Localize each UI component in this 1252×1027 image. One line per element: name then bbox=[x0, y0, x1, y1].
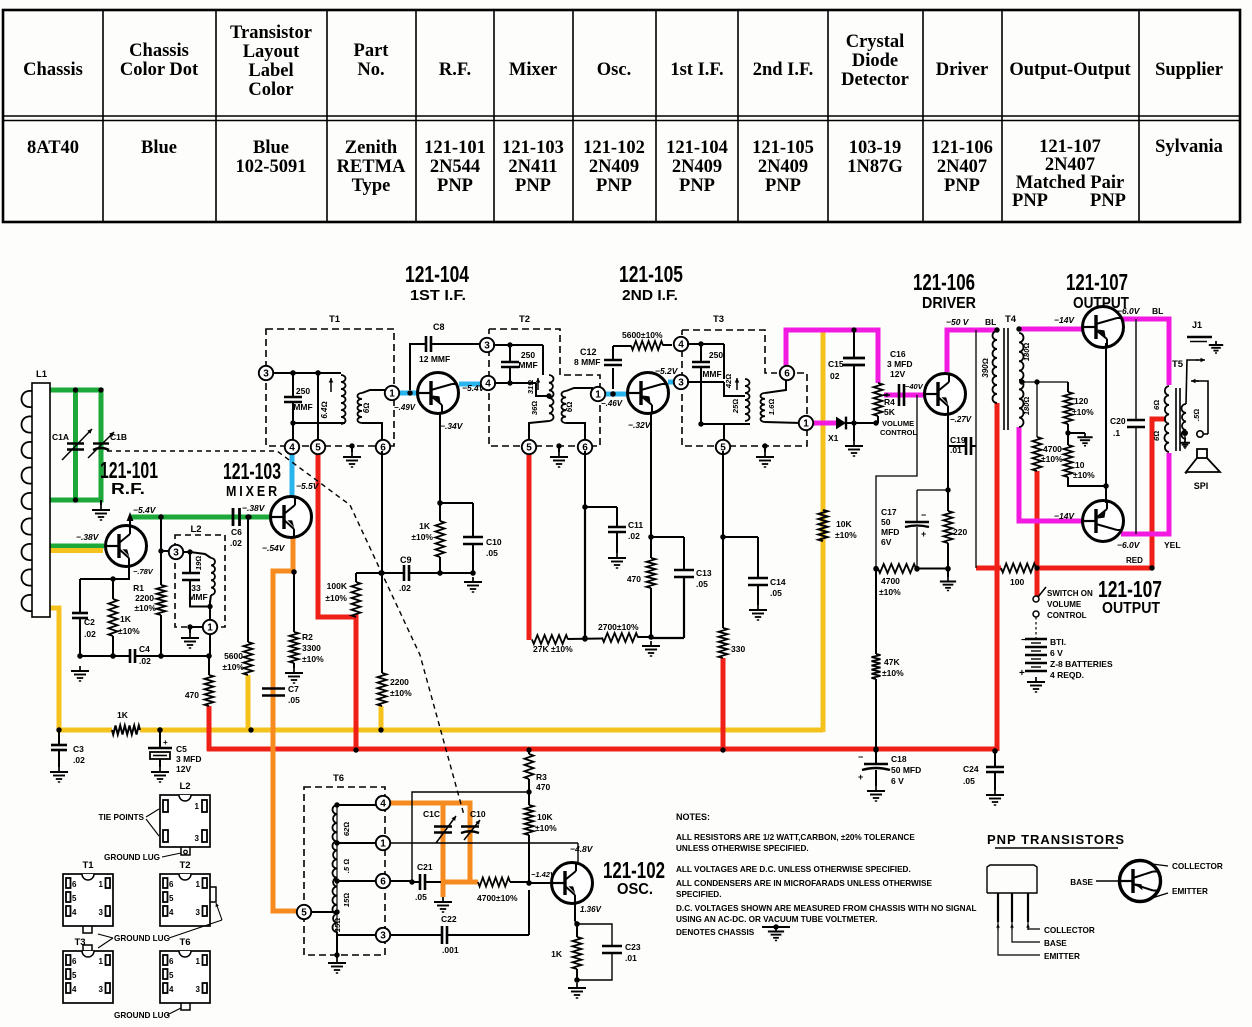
svg-text:R.F.: R.F. bbox=[111, 481, 145, 498]
svg-text:+: + bbox=[1019, 668, 1025, 679]
svg-text:C1C: C1C bbox=[423, 809, 440, 819]
wire red supply bus bbox=[207, 747, 997, 752]
resistor 4700 output bias bbox=[1036, 382, 1038, 437]
svg-text:C13: C13 bbox=[696, 568, 712, 578]
svg-text:121-107: 121-107 bbox=[1098, 576, 1162, 602]
osc emitter bbox=[574, 903, 576, 921]
svg-text:Transistor: Transistor bbox=[230, 23, 312, 43]
svg-text:121-105: 121-105 bbox=[619, 261, 683, 287]
T3 pin 4 bbox=[674, 337, 688, 351]
svg-text:Label: Label bbox=[248, 61, 293, 81]
svg-text:PNP: PNP bbox=[944, 176, 980, 196]
svg-text:250: 250 bbox=[296, 386, 310, 396]
svg-text:±10%: ±10% bbox=[535, 823, 557, 833]
T2 secondary winding bbox=[562, 391, 567, 423]
transistor 121-107 output top bbox=[1083, 307, 1124, 348]
svg-text:MMF: MMF bbox=[293, 402, 312, 412]
wire orange bottom link bbox=[443, 880, 478, 885]
parts table frame bbox=[3, 10, 1240, 222]
svg-text:Type: Type bbox=[352, 176, 391, 196]
svg-text:.02: .02 bbox=[84, 629, 96, 639]
svg-text:Driver: Driver bbox=[936, 60, 988, 80]
svg-text:T3: T3 bbox=[713, 314, 724, 325]
svg-text:2N407: 2N407 bbox=[1045, 155, 1095, 175]
svg-text:MIXER: MIXER bbox=[226, 483, 280, 500]
svg-text:−.38V: −.38V bbox=[242, 503, 266, 513]
svg-text:USING AN AC-DC. OR VACUUM TUBE: USING AN AC-DC. OR VACUUM TUBE VOLTMETER… bbox=[676, 915, 878, 924]
T6 pin 6 bbox=[337, 880, 376, 882]
svg-text:250: 250 bbox=[709, 350, 723, 360]
svg-text:180Ω: 180Ω bbox=[1022, 343, 1031, 362]
svg-text:5600: 5600 bbox=[224, 651, 243, 661]
svg-text:4 REQD.: 4 REQD. bbox=[1050, 670, 1084, 680]
svg-text:C11: C11 bbox=[628, 520, 643, 530]
svg-text:02: 02 bbox=[830, 371, 840, 381]
svg-text:5600±10%: 5600±10% bbox=[622, 330, 663, 340]
svg-text:C7: C7 bbox=[288, 684, 299, 694]
svg-text:J1: J1 bbox=[1192, 320, 1202, 330]
svg-text:R3: R3 bbox=[536, 772, 547, 782]
svg-text:10K: 10K bbox=[836, 519, 852, 529]
svg-text:1K: 1K bbox=[551, 949, 563, 959]
T1 secondary winding 6ohm bbox=[358, 393, 363, 423]
svg-text:−.46V: −.46V bbox=[601, 399, 623, 408]
svg-text:4: 4 bbox=[169, 908, 174, 917]
T2 pin 3 bbox=[480, 338, 494, 352]
resistor 5600 mixer bias bbox=[245, 514, 250, 519]
capacitor C20 .1 bbox=[1135, 319, 1137, 420]
ground C2 bbox=[79, 666, 81, 671]
switch on volume control bbox=[1033, 596, 1039, 602]
svg-text:.02: .02 bbox=[139, 656, 151, 666]
package lead labels bbox=[1028, 922, 1040, 929]
svg-text:2nd I.F.: 2nd I.F. bbox=[753, 60, 814, 80]
wire R3 junction to C21 bbox=[412, 792, 529, 882]
svg-text:1: 1 bbox=[803, 418, 809, 429]
svg-text:±10%: ±10% bbox=[118, 626, 140, 636]
transistor symbol legend bbox=[1120, 861, 1161, 902]
svg-text:T2: T2 bbox=[519, 314, 530, 325]
svg-text:4: 4 bbox=[169, 985, 174, 994]
svg-text:C4: C4 bbox=[139, 644, 150, 654]
svg-text:X1: X1 bbox=[828, 433, 839, 443]
transformer T4 bbox=[993, 331, 998, 403]
svg-text:C16: C16 bbox=[890, 349, 906, 359]
T5 secondary to jack bbox=[1186, 360, 1198, 404]
svg-text:C5: C5 bbox=[176, 744, 187, 754]
wire output emitters link bbox=[1105, 343, 1107, 503]
svg-text:25Ω: 25Ω bbox=[731, 399, 740, 414]
svg-text:470: 470 bbox=[627, 574, 641, 584]
svg-text:±10%: ±10% bbox=[302, 654, 324, 664]
svg-text:.02: .02 bbox=[628, 531, 640, 541]
ground C18 bbox=[875, 786, 877, 791]
svg-text:3: 3 bbox=[196, 985, 201, 994]
svg-text:47K: 47K bbox=[884, 657, 900, 667]
svg-text:D.C. VOLTAGES SHOWN ARE MEASUR: D.C. VOLTAGES SHOWN ARE MEASURED FROM CH… bbox=[676, 904, 977, 913]
svg-text:C18: C18 bbox=[891, 754, 907, 764]
svg-text:BL: BL bbox=[985, 317, 996, 327]
resistor 10K volume bbox=[819, 510, 828, 541]
resistor 330 bbox=[722, 537, 724, 628]
svg-text:+: + bbox=[858, 772, 863, 782]
svg-text:PNP: PNP bbox=[765, 176, 801, 196]
tuning capacitor C1A bbox=[67, 442, 84, 444]
svg-text:4: 4 bbox=[678, 339, 684, 350]
svg-text:−5.5V: −5.5V bbox=[296, 481, 320, 491]
ground R2 bbox=[293, 668, 295, 673]
T4 secondary bias taps bbox=[1019, 381, 1068, 383]
ground C14 bbox=[757, 605, 759, 610]
capacitor C12 8MMF bbox=[612, 368, 614, 389]
svg-text:4: 4 bbox=[485, 378, 491, 389]
wire magenta driver collector to T4 bbox=[947, 330, 997, 372]
svg-text:.05: .05 bbox=[770, 588, 782, 598]
resistor 1K RF emitter bbox=[110, 576, 115, 581]
svg-text:Detector: Detector bbox=[841, 70, 909, 90]
svg-text:.02: .02 bbox=[399, 583, 411, 593]
svg-text:1K: 1K bbox=[117, 710, 129, 720]
svg-text:31Ω: 31Ω bbox=[526, 380, 535, 394]
T2 pin 6 bbox=[578, 440, 592, 454]
svg-text:Mixer: Mixer bbox=[509, 60, 557, 80]
svg-text:Part: Part bbox=[354, 41, 390, 61]
T1 layout ground lug bbox=[83, 926, 92, 933]
svg-text:BL: BL bbox=[1152, 306, 1163, 316]
svg-text:C19: C19 bbox=[950, 435, 966, 445]
svg-text:−.34V: −.34V bbox=[440, 421, 464, 431]
svg-text:5: 5 bbox=[72, 894, 77, 903]
T3 primary wiring bbox=[687, 343, 724, 345]
svg-text:.01: .01 bbox=[625, 953, 637, 963]
junction dots bbox=[248, 727, 253, 732]
T3 primary winding bbox=[723, 344, 725, 379]
T3 pin 6 bbox=[780, 366, 794, 380]
resistor 10K osc bbox=[528, 792, 530, 805]
resistor 4700 osc bbox=[478, 878, 510, 887]
svg-text:C6: C6 bbox=[231, 527, 242, 537]
wire C19 to 100 ohm row bbox=[975, 330, 977, 568]
svg-text:1K: 1K bbox=[120, 614, 132, 624]
wire red 100 ohm row bbox=[976, 566, 1001, 571]
svg-text:PNP: PNP bbox=[1012, 191, 1048, 211]
svg-text:MFD: MFD bbox=[881, 527, 899, 537]
transformer T2 dashed box bbox=[489, 329, 600, 446]
svg-text:L2: L2 bbox=[179, 781, 190, 792]
svg-text:C10: C10 bbox=[470, 809, 486, 819]
svg-text:−40V: −40V bbox=[905, 382, 924, 391]
T3 layout top lug bbox=[83, 945, 92, 951]
driver emitter line bbox=[947, 414, 949, 511]
resistor 100 bbox=[1001, 564, 1036, 573]
transistor 121-106 driver bbox=[925, 374, 966, 415]
svg-text:330: 330 bbox=[731, 644, 745, 654]
svg-text:1N87G: 1N87G bbox=[847, 157, 903, 177]
svg-text:4: 4 bbox=[72, 985, 77, 994]
svg-text:COLLECTOR: COLLECTOR bbox=[1172, 862, 1223, 871]
wire orange T6 pin4 to osc caps bbox=[390, 803, 470, 880]
svg-text:5: 5 bbox=[169, 971, 174, 980]
svg-text:Layout: Layout bbox=[243, 42, 300, 62]
svg-text:DENOTES CHASSIS: DENOTES CHASSIS bbox=[676, 928, 755, 937]
svg-text:3300: 3300 bbox=[302, 643, 321, 653]
svg-text:.02: .02 bbox=[73, 755, 85, 765]
svg-text:MMF: MMF bbox=[702, 369, 721, 379]
transistor package outline bbox=[987, 865, 1037, 893]
svg-text:470: 470 bbox=[185, 690, 199, 700]
wire yellow volume supply riser bbox=[821, 330, 826, 732]
svg-text:2N411: 2N411 bbox=[508, 157, 557, 177]
svg-text:3: 3 bbox=[196, 908, 201, 917]
T2 primary wiring bbox=[493, 344, 543, 346]
antenna coil L1 bbox=[32, 383, 50, 617]
svg-text:−.27V: −.27V bbox=[950, 415, 972, 424]
capacitor C15 02 bbox=[853, 330, 855, 358]
svg-text:2N544: 2N544 bbox=[430, 157, 480, 177]
capacitor C11 .02 bbox=[585, 506, 617, 508]
svg-text:.05: .05 bbox=[288, 695, 300, 705]
svg-text:121-101: 121-101 bbox=[424, 138, 486, 158]
svg-text:±10%: ±10% bbox=[411, 532, 433, 542]
svg-text:121-105: 121-105 bbox=[752, 138, 814, 158]
svg-text:Blue: Blue bbox=[253, 138, 289, 158]
svg-text:220: 220 bbox=[953, 527, 967, 537]
svg-text:.5 Ω: .5 Ω bbox=[342, 859, 351, 873]
capacitor C18 50MFD 6V electrolytic bbox=[873, 746, 878, 751]
svg-text:VOLUME: VOLUME bbox=[1047, 600, 1082, 609]
capacitor C10 .05 bbox=[440, 502, 473, 504]
svg-text:Chassis: Chassis bbox=[129, 41, 189, 61]
svg-text:−.49V: −.49V bbox=[394, 403, 416, 412]
mixer emitter junction to R2 bbox=[291, 569, 296, 574]
svg-text:4: 4 bbox=[72, 908, 77, 917]
svg-text:1: 1 bbox=[389, 388, 395, 399]
resistor 4700 driver bbox=[873, 566, 878, 571]
svg-text:PNP: PNP bbox=[596, 176, 632, 196]
svg-text:3: 3 bbox=[99, 985, 104, 994]
svg-text:±10%: ±10% bbox=[325, 593, 347, 603]
wire magenta detector to diode bbox=[812, 421, 837, 426]
capacitor C8 12MMF feedback bbox=[410, 344, 426, 390]
svg-text:+: + bbox=[163, 738, 168, 747]
svg-text:6: 6 bbox=[380, 876, 386, 887]
capacitor C24 .05 bbox=[992, 748, 997, 753]
diode X1 bbox=[836, 417, 846, 430]
svg-text:Blue: Blue bbox=[141, 138, 177, 158]
resistor R2 3300 bbox=[290, 632, 299, 663]
svg-text:2ND I.F.: 2ND I.F. bbox=[622, 287, 678, 304]
svg-text:250: 250 bbox=[521, 350, 535, 360]
svg-text:2N409: 2N409 bbox=[672, 157, 722, 177]
wire magenta top output collector to T5 bbox=[1121, 319, 1169, 385]
svg-text:±10%: ±10% bbox=[222, 662, 244, 672]
wire green L1 tap to RF base bbox=[50, 544, 104, 549]
svg-text:2N407: 2N407 bbox=[937, 157, 987, 177]
ground C15 bbox=[853, 441, 855, 446]
svg-text:−4.8V: −4.8V bbox=[570, 844, 594, 854]
layout box L2 bbox=[160, 795, 210, 847]
L2 pin 3 bbox=[169, 545, 183, 559]
capacitor C22 .001 bbox=[390, 934, 442, 936]
svg-text:121-102: 121-102 bbox=[603, 857, 665, 883]
svg-text:−6.0V: −6.0V bbox=[1117, 540, 1141, 550]
svg-text:120: 120 bbox=[1074, 396, 1088, 406]
wire C4 node to L2 pin1 bbox=[162, 655, 209, 657]
svg-text:.05: .05 bbox=[486, 548, 498, 558]
svg-text:RETMA: RETMA bbox=[337, 157, 407, 177]
svg-text:.01: .01 bbox=[950, 445, 962, 455]
svg-text:TIE POINTS: TIE POINTS bbox=[99, 813, 145, 822]
svg-text:−5.4V: −5.4V bbox=[133, 505, 157, 515]
ground C5 bbox=[159, 767, 161, 772]
svg-text:.05: .05 bbox=[963, 776, 975, 786]
resistor 470 2nd IF emitter bbox=[650, 537, 652, 558]
ground L2 bbox=[187, 624, 192, 629]
svg-text:±10%: ±10% bbox=[882, 668, 904, 678]
svg-text:19Ω: 19Ω bbox=[194, 556, 203, 570]
1st IF emitter line bbox=[439, 414, 441, 503]
wire cyan T2 pin1 to 2nd IF base bbox=[605, 392, 628, 397]
T2 pin 4 bbox=[481, 376, 495, 390]
wire red 4700 to switch bbox=[1035, 471, 1040, 597]
svg-text:100K: 100K bbox=[327, 581, 348, 591]
svg-text:−: − bbox=[1021, 635, 1027, 646]
svg-text:L2: L2 bbox=[190, 524, 201, 535]
svg-text:SWITCH ON: SWITCH ON bbox=[1047, 589, 1093, 598]
svg-text:PNP: PNP bbox=[1090, 191, 1126, 211]
T6 pin 3 bbox=[336, 932, 338, 935]
svg-text:±10%: ±10% bbox=[879, 587, 901, 597]
svg-text:SPI: SPI bbox=[1194, 481, 1209, 491]
capacitor C13 .05 bbox=[651, 536, 684, 538]
speaker SPI bbox=[1197, 449, 1207, 458]
wire emitter row to C4 bbox=[80, 655, 130, 657]
ground C1C bbox=[442, 897, 444, 902]
capacitor C23 .01 bbox=[577, 924, 612, 946]
svg-text:4700: 4700 bbox=[1043, 444, 1062, 454]
svg-text:3: 3 bbox=[99, 908, 104, 917]
svg-text:.02: .02 bbox=[230, 538, 242, 548]
svg-text:C23: C23 bbox=[625, 942, 641, 952]
wire T3 pin5 vertical bbox=[722, 451, 724, 537]
T3 pin 1 bbox=[799, 416, 813, 430]
svg-text:100: 100 bbox=[1010, 577, 1024, 587]
ground C10 bbox=[472, 577, 474, 582]
svg-text:5: 5 bbox=[526, 442, 532, 453]
svg-text:Color: Color bbox=[248, 80, 293, 100]
svg-text:T3: T3 bbox=[74, 937, 85, 948]
svg-text:6: 6 bbox=[784, 368, 790, 379]
L2 pin 1 bbox=[209, 607, 211, 621]
svg-text:ALL VOLTAGES ARE D.C. UNLESS O: ALL VOLTAGES ARE D.C. UNLESS OTHERWISE S… bbox=[676, 865, 911, 874]
svg-text:−.78V: −.78V bbox=[133, 567, 154, 576]
svg-text:L1: L1 bbox=[36, 369, 48, 380]
svg-text:VOLUME: VOLUME bbox=[882, 419, 914, 428]
svg-text:C2: C2 bbox=[84, 617, 95, 627]
svg-text:T1: T1 bbox=[329, 314, 341, 325]
svg-text:R1: R1 bbox=[133, 583, 144, 593]
svg-text:2200: 2200 bbox=[390, 677, 409, 687]
resistor 10 bbox=[1067, 433, 1069, 445]
T6 pin 4 bbox=[337, 804, 376, 806]
svg-text:COLLECTOR: COLLECTOR bbox=[1044, 926, 1095, 935]
wire cyan T1 pin4 to mixer collector bbox=[290, 451, 295, 497]
transformer T1 dashed box bbox=[266, 329, 394, 446]
T1 pin 3 bbox=[259, 366, 273, 380]
svg-text:Matched Pair: Matched Pair bbox=[1016, 173, 1124, 193]
T1 pin 1 bbox=[385, 386, 399, 400]
svg-text:1: 1 bbox=[99, 880, 104, 889]
svg-text:6V: 6V bbox=[881, 537, 892, 547]
resistor 1K AVC bus bbox=[112, 726, 140, 735]
battery BT1 6V bbox=[1035, 617, 1037, 638]
wire red T5 riser bbox=[1152, 419, 1166, 568]
svg-text:GROUND LUG: GROUND LUG bbox=[114, 934, 170, 943]
svg-text:2700±10%: 2700±10% bbox=[598, 622, 639, 632]
svg-text:1: 1 bbox=[196, 957, 201, 966]
svg-text:YEL: YEL bbox=[1164, 540, 1181, 550]
ground 2nd IF emitter bbox=[650, 641, 652, 646]
svg-text:6Ω: 6Ω bbox=[362, 403, 371, 414]
2nd IF emitter line bbox=[650, 414, 652, 537]
transistor 121-107 output bottom bbox=[1083, 501, 1124, 542]
svg-text:R2: R2 bbox=[302, 632, 313, 642]
wire base node to transistor bbox=[529, 882, 552, 884]
svg-text:C24: C24 bbox=[963, 764, 979, 774]
svg-text:102-5091: 102-5091 bbox=[236, 157, 307, 177]
svg-text:.5Ω: .5Ω bbox=[1192, 409, 1201, 421]
ground battery bbox=[1035, 677, 1037, 682]
svg-text:6: 6 bbox=[169, 957, 174, 966]
driver base bias line bbox=[876, 395, 917, 569]
wire green antenna loop bbox=[50, 388, 101, 393]
capacitor C14 .05 bbox=[723, 536, 758, 538]
svg-text:12V: 12V bbox=[890, 369, 905, 379]
svg-text:−50 V: −50 V bbox=[946, 317, 970, 327]
T1 primary winding 6.4ohm bbox=[317, 373, 319, 423]
ground T3 box bbox=[762, 443, 767, 448]
svg-text:±10%: ±10% bbox=[134, 603, 156, 613]
T3 pin 3 bbox=[674, 375, 688, 389]
svg-text:12V: 12V bbox=[176, 764, 191, 774]
svg-text:C3: C3 bbox=[73, 744, 84, 754]
svg-text:SPECIFIED.: SPECIFIED. bbox=[676, 890, 722, 899]
svg-text:15Ω: 15Ω bbox=[333, 918, 342, 932]
capacitor 250 MMF T1 bbox=[284, 396, 302, 399]
wire magenta volume wiper to driver base bbox=[884, 393, 925, 398]
capacitor 33 MMF in L2 bbox=[189, 552, 191, 573]
svg-text:−.54V: −.54V bbox=[262, 543, 286, 553]
ground C11 bbox=[616, 553, 618, 558]
capacitor C4 .02 bbox=[129, 649, 132, 663]
svg-text:6Ω: 6Ω bbox=[1152, 431, 1161, 441]
svg-text:10: 10 bbox=[1075, 460, 1085, 470]
svg-text:121-106: 121-106 bbox=[913, 269, 975, 295]
svg-text:3: 3 bbox=[678, 377, 684, 388]
resistor 1K osc bbox=[576, 924, 578, 937]
svg-text:ALL CONDENSERS ARE IN MICROFAR: ALL CONDENSERS ARE IN MICROFARADS UNLESS… bbox=[676, 879, 932, 888]
wire RF collector branch to L2 bbox=[158, 514, 163, 519]
svg-text:−5.2V: −5.2V bbox=[655, 366, 679, 376]
wire green RF collector to mixer base bbox=[130, 515, 270, 520]
svg-text:1K: 1K bbox=[419, 521, 431, 531]
svg-text:C9: C9 bbox=[400, 555, 412, 565]
svg-text:C20: C20 bbox=[1110, 416, 1126, 426]
resistor 1K 1st IF emitter bbox=[439, 503, 441, 521]
svg-text:EMITTER: EMITTER bbox=[1172, 887, 1208, 896]
svg-text:R.F.: R.F. bbox=[439, 60, 471, 80]
svg-text:121-103: 121-103 bbox=[502, 138, 564, 158]
